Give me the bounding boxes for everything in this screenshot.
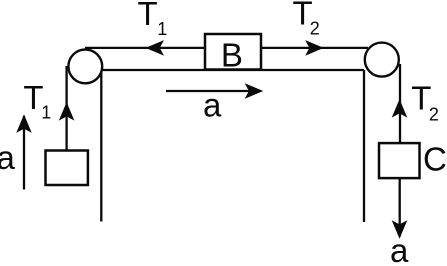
svg-text:B: B bbox=[221, 36, 243, 73]
svg-text:T: T bbox=[138, 0, 158, 32]
svg-text:a: a bbox=[203, 86, 222, 123]
svg-text:2: 2 bbox=[429, 105, 439, 125]
svg-text:a: a bbox=[0, 139, 16, 176]
svg-text:a: a bbox=[390, 232, 409, 266]
svg-text:1: 1 bbox=[157, 19, 167, 39]
svg-text:C: C bbox=[423, 141, 447, 178]
svg-text:1: 1 bbox=[41, 103, 51, 123]
svg-text:2: 2 bbox=[310, 19, 320, 39]
